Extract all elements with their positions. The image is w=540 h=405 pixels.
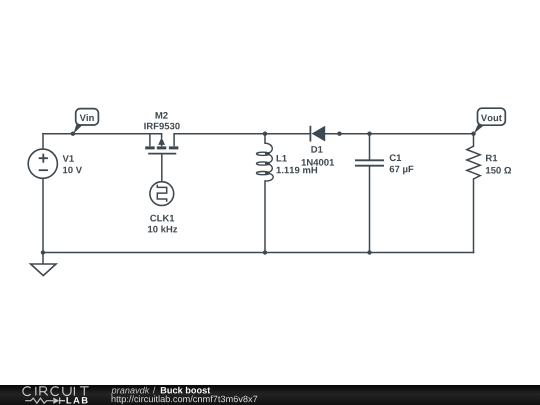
label C1 bbox=[390, 154, 402, 161]
wire top rail right (Vout node) bbox=[325, 133, 473, 135]
junction dot inductor top bbox=[263, 132, 267, 136]
capacitor C1 bbox=[355, 160, 384, 165]
logo resistor squiggle bbox=[25, 398, 53, 403]
inductor L1 bbox=[257, 143, 274, 181]
wire inductor bottom stub bbox=[264, 181, 266, 253]
footer title Buck boost bbox=[161, 387, 210, 394]
circuitlab logo wordmark CIRCUIT bbox=[23, 387, 89, 396]
footer bar background bbox=[0, 385, 540, 405]
logo wordmark LAB bbox=[67, 397, 88, 403]
label D1 type 1N4001 bbox=[302, 159, 334, 166]
label CLK1 value 10 kHz bbox=[148, 226, 177, 233]
wire ground stub bbox=[42, 253, 44, 265]
label V1 value 10 V bbox=[63, 167, 82, 174]
label L1 bbox=[277, 155, 287, 162]
node flag Vin bbox=[74, 109, 99, 134]
clock source CLK1 bbox=[150, 182, 174, 206]
footer separator slash bbox=[153, 387, 156, 394]
transistor M2 PMOS bbox=[145, 134, 178, 154]
junction dot Vout tap bbox=[471, 132, 475, 136]
wire left vertical below V1 bbox=[42, 178, 44, 252]
wire top rail left (Vin node) bbox=[43, 133, 162, 135]
wire capacitor bottom stub bbox=[369, 167, 371, 253]
label CLK1 bbox=[150, 215, 174, 222]
diode D1 bbox=[310, 126, 325, 142]
label M2 type IRF9530 bbox=[144, 123, 179, 130]
junction dot capacitor bottom bbox=[367, 250, 371, 254]
wire right vertical above R1 bbox=[473, 134, 475, 147]
wire left vertical above V1 bbox=[42, 134, 44, 150]
junction dot ground node bbox=[41, 250, 45, 254]
label R1 bbox=[486, 155, 497, 162]
ground bbox=[31, 264, 56, 276]
resistor R1 bbox=[467, 146, 480, 179]
junction dot Vin tap bbox=[71, 132, 75, 136]
wire right vertical below R1 bbox=[473, 179, 475, 253]
voltage source V1 bbox=[28, 149, 57, 178]
label D1 bbox=[311, 146, 322, 153]
label L1 value 1.119 mH bbox=[277, 167, 318, 174]
junction dot capacitor top bbox=[367, 132, 371, 136]
footer url bbox=[112, 395, 258, 404]
label C1 value 67 uF bbox=[390, 166, 414, 175]
label R1 value 150 Ohm bbox=[486, 167, 511, 174]
label M2 bbox=[156, 112, 168, 119]
logo diode symbol bbox=[53, 398, 59, 404]
label V1 bbox=[63, 155, 74, 162]
node flag Vout bbox=[474, 108, 506, 133]
junction dot inductor bottom bbox=[263, 250, 267, 254]
wire M2 gate to CLK1 bbox=[161, 155, 163, 182]
wire bottom rail bbox=[43, 252, 474, 254]
wire inductor top stub bbox=[264, 134, 266, 144]
junction dot diode output net bbox=[337, 132, 341, 136]
footer author pranavdk bbox=[111, 387, 149, 396]
wire capacitor top stub bbox=[369, 134, 371, 160]
wire top rail middle (switch node) bbox=[174, 133, 310, 135]
